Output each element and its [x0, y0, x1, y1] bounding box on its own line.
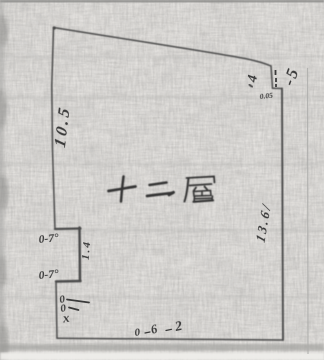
label 5 (top-right step, right side, rotated) [279, 64, 303, 88]
scan artifact: faint horizontal streaks [0, 56, 324, 299]
wire: left wall upper [52, 28, 55, 230]
dashed tick marks at step [275, 70, 278, 87]
scan artifact: bottom smudge band [0, 344, 324, 351]
ink blob at top-left corner [53, 26, 56, 29]
svg-text:0.05: 0.05 [259, 91, 273, 101]
svg-text:0-7°: 0-7° [38, 232, 59, 246]
label 10.5 (left wall, rotated) [50, 103, 74, 149]
scan artifact: faint vertical fold line right side [307, 68, 310, 354]
wire: notch bottom edge [56, 280, 81, 283]
label 0- 0. x (inside bottom-left) [58, 293, 89, 326]
wire: top diagonal wall [54, 28, 272, 67]
scan artifact: top dark edge line [0, 0, 324, 2]
character 十 [109, 187, 136, 192]
svg-text:1.4: 1.4 [80, 240, 94, 261]
character 二 [150, 183, 167, 186]
small tick below the 4 [249, 85, 253, 88]
wire: top-right step vertical [271, 66, 273, 88]
wire: bottom wall [57, 338, 283, 340]
wire: top-right step horizontal [273, 87, 283, 89]
label 十二層 (handwritten) [109, 177, 215, 202]
label 1.4 (right of notch, rotated) [80, 240, 94, 261]
floor plan outline [52, 26, 283, 340]
wire: left wall lower [56, 282, 57, 339]
wire: notch right edge [78, 228, 81, 282]
character 層 [185, 177, 215, 202]
label 13.6 (right wall, rotated) [253, 200, 275, 244]
wire: right wall [282, 89, 283, 341]
label 4 (top-right step, left side, rotated) [245, 74, 261, 84]
wire: notch top edge [55, 227, 81, 230]
scan artifact: left dark mottled band [0, 0, 9, 360]
svg-text:0-7°: 0-7° [38, 268, 59, 282]
